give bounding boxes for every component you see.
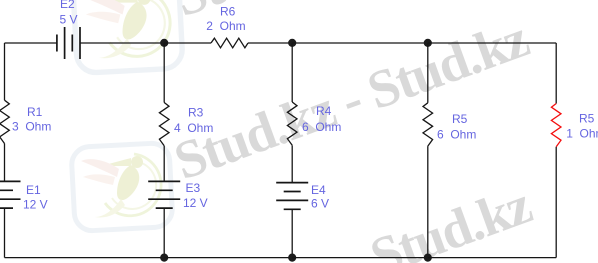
node B junction: [288, 39, 296, 47]
svg-text:E2: E2: [60, 0, 75, 11]
wire left branch upper: [4, 43, 6, 100]
svg-text:12 V: 12 V: [23, 198, 48, 212]
wire R5 to node G: [427, 146, 429, 258]
battery E2: [56, 35, 58, 52]
resistor R4: [287, 102, 297, 145]
svg-text:4 Ohm: 4 Ohm: [174, 121, 213, 135]
svg-text:E4: E4: [311, 183, 326, 197]
svg-text:6 V: 6 V: [311, 197, 329, 211]
wire branch 5 upper: [555, 43, 557, 104]
wire E1 to bottom-left corner: [4, 208, 6, 258]
wire bottom segment F-G: [292, 257, 428, 259]
svg-text:E1: E1: [26, 183, 41, 197]
wire branch 4 upper: [427, 43, 429, 103]
svg-text:1 Ohm: 1 Ohm: [566, 127, 598, 141]
node G junction: [424, 254, 432, 262]
svg-text:12 V: 12 V: [183, 196, 208, 210]
battery E3: [148, 180, 180, 182]
svg-text:E3: E3: [186, 181, 201, 195]
svg-text:6 Ohm: 6 Ohm: [437, 128, 476, 142]
wire branch 2 upper: [163, 43, 165, 103]
resistor R3: [159, 103, 169, 146]
wire R3 to E3: [163, 146, 165, 182]
svg-text:R4: R4: [316, 104, 332, 118]
wire bottom segment G to corner: [428, 257, 556, 259]
wire node C to top-right corner: [428, 42, 556, 44]
svg-text:R6: R6: [220, 5, 236, 19]
node A junction: [160, 39, 168, 47]
svg-text:3 Ohm: 3 Ohm: [12, 119, 51, 133]
resistor R5 load (red): [551, 104, 561, 147]
wire node B to node C: [292, 42, 428, 44]
wire R6 to node B: [248, 42, 292, 44]
resistor R5: [423, 103, 433, 146]
resistor R6: [211, 38, 248, 48]
wire R1 to E1: [4, 144, 6, 182]
node F junction: [288, 254, 296, 262]
svg-text:6 Ohm: 6 Ohm: [302, 120, 341, 134]
svg-text:R5: R5: [579, 112, 595, 126]
svg-text:R1: R1: [27, 105, 43, 119]
wire top-left horizontal: [5, 42, 57, 44]
wire bottom left segment: [5, 257, 165, 259]
wire node A to R6: [164, 42, 211, 44]
battery E1: [0, 180, 21, 182]
svg-text:2 Ohm: 2 Ohm: [206, 19, 245, 33]
battery E4: [276, 182, 308, 184]
wire R4 to E4: [291, 145, 293, 182]
wire top E2 to node A: [80, 42, 164, 44]
svg-text:5 V: 5 V: [60, 13, 78, 27]
wire red R5 to bottom-right corner: [555, 147, 557, 258]
node C junction: [424, 39, 432, 47]
wire E3 to node E: [163, 208, 165, 258]
wire branch 3 upper: [291, 43, 293, 102]
wire E4 to node F: [291, 209, 293, 257]
svg-text:R5: R5: [452, 112, 468, 126]
resistor R1: [0, 100, 9, 143]
wire bottom segment E-F: [164, 257, 292, 259]
node E junction: [160, 254, 168, 262]
svg-text:R3: R3: [188, 106, 204, 120]
